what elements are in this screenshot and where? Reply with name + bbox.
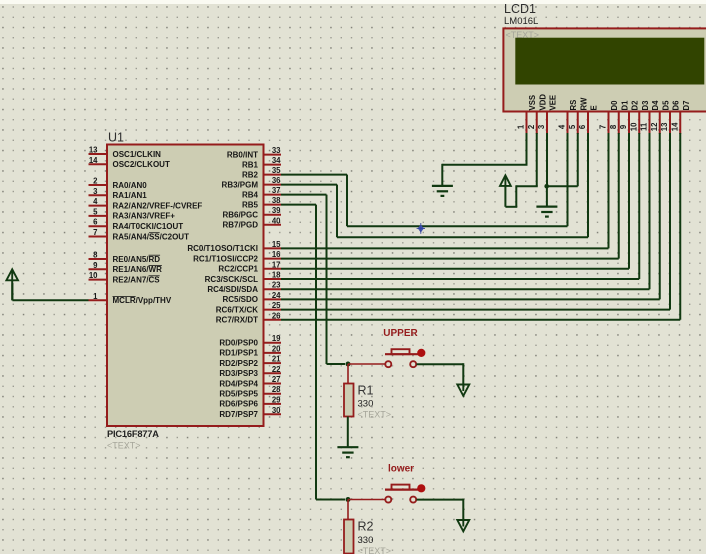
wire junction to button left — [348, 363, 385, 365]
svg-text:D1: D1 — [620, 100, 629, 111]
svg-text:RD7/PSP7: RD7/PSP7 — [219, 410, 258, 419]
svg-text:RD1/PSP1: RD1/PSP1 — [219, 349, 258, 358]
U1 pin 18 RC3/SCK/SCL — [205, 271, 281, 284]
svg-text:6: 6 — [578, 124, 587, 129]
svg-text:RA0/AN0: RA0/AN0 — [113, 181, 148, 190]
svg-text:RC3/SCK/SCL: RC3/SCK/SCL — [205, 275, 258, 284]
svg-text:D5: D5 — [661, 100, 670, 111]
svg-text:7: 7 — [599, 125, 608, 129]
svg-text:RW: RW — [579, 97, 588, 110]
svg-text:RC2/CCP1: RC2/CCP1 — [218, 265, 258, 274]
svg-text:RE1/AN6/WR: RE1/AN6/WR — [113, 265, 163, 274]
svg-text:15: 15 — [272, 240, 281, 249]
U1 pin 21 RD2/PSP2 — [219, 355, 281, 368]
svg-text:RB3/PGM: RB3/PGM — [222, 180, 259, 189]
wire RC6 to LCD D6 — [281, 309, 670, 311]
svg-text:16: 16 — [272, 250, 281, 259]
svg-text:MCLR/Vpp/THV: MCLR/Vpp/THV — [113, 296, 172, 305]
svg-text:RB1: RB1 — [242, 160, 259, 169]
svg-text:E: E — [590, 105, 599, 110]
U1 pin 7 RA5/AN4/SS/C2OUT — [89, 228, 190, 241]
wire RC1 to LCD D1 — [281, 258, 619, 260]
wire RC2 to LCD D2 — [281, 268, 629, 270]
wire LCD VSS to ground — [526, 133, 528, 165]
LCD1 pin 7 D0 — [599, 100, 619, 134]
wire junction to ground — [546, 186, 548, 206]
LCD1 pin 10 D3 — [629, 100, 649, 134]
wire RB4 to UPPER button — [281, 194, 327, 196]
svg-text:4: 4 — [93, 197, 98, 206]
svg-text:2: 2 — [93, 177, 98, 186]
svg-text:D2: D2 — [631, 100, 640, 111]
wire RC5 to LCD D5 — [281, 298, 660, 300]
svg-text:RC0/T1OSO/T1CKI: RC0/T1OSO/T1CKI — [187, 244, 258, 253]
svg-text:8: 8 — [609, 124, 618, 129]
svg-text:330: 330 — [358, 535, 374, 546]
U1 pin 17 RC2/CCP1 — [218, 260, 281, 273]
svg-text:RC5/SDO: RC5/SDO — [222, 295, 258, 304]
power arrow VDD — [500, 175, 511, 186]
U1 pin 28 RD5/PSP5 — [219, 385, 281, 398]
LCD screen — [515, 38, 704, 85]
U1 pin 37 RB4 — [242, 186, 281, 199]
svg-text:12: 12 — [650, 122, 659, 131]
U1 pin 19 RD0/PSP0 — [219, 334, 281, 347]
U1 pin 2 RA0/AN0 — [89, 177, 148, 190]
LCD1 pin 6 E — [578, 105, 598, 134]
wire RC3 to LCD D3 — [281, 278, 639, 280]
U1 pin 26 RC7/RX/DT — [216, 311, 281, 324]
svg-text:8: 8 — [93, 251, 98, 260]
svg-text:11: 11 — [640, 122, 649, 131]
svg-text:D4: D4 — [651, 100, 660, 111]
svg-text:14: 14 — [89, 156, 98, 165]
svg-text:U1: U1 — [108, 131, 124, 145]
svg-text:RB2: RB2 — [242, 170, 259, 179]
resistor R2 — [344, 520, 354, 554]
svg-text:RD0/PSP0: RD0/PSP0 — [219, 339, 258, 348]
svg-text:RC1/T1OSI/CCP2: RC1/T1OSI/CCP2 — [193, 254, 258, 263]
wire RB3 to LCD E — [281, 184, 337, 186]
U1 pin 30 RD7/PSP7 — [219, 406, 281, 419]
svg-text:RD2/PSP2: RD2/PSP2 — [219, 359, 258, 368]
U1 pin 24 RC5/SDO — [222, 291, 281, 304]
LCD LCD1 body — [503, 28, 706, 111]
LCD1 pin 2 VDD — [527, 94, 547, 134]
wire junction to R1 — [347, 364, 349, 384]
svg-text:10: 10 — [89, 271, 98, 280]
U1 pin 25 RC6/TX/CK — [216, 301, 281, 314]
svg-text:13: 13 — [89, 146, 98, 155]
svg-text:1: 1 — [93, 292, 98, 301]
LCD1 pin 3 VEE — [537, 95, 557, 134]
wire R1 to ground — [347, 417, 349, 448]
down arrow lower — [457, 520, 469, 531]
svg-text:13: 13 — [660, 122, 669, 131]
down arrow UPPER — [457, 385, 469, 396]
svg-text:RC6/TX/CK: RC6/TX/CK — [216, 305, 258, 314]
svg-text:RA3/AN3/VREF+: RA3/AN3/VREF+ — [113, 212, 176, 221]
svg-text:D7: D7 — [682, 101, 691, 111]
svg-text:RB4: RB4 — [242, 190, 259, 199]
ground for VSS — [432, 185, 453, 187]
svg-text:33: 33 — [272, 146, 281, 155]
svg-text:VSS: VSS — [528, 95, 537, 111]
svg-text:19: 19 — [272, 334, 281, 343]
svg-text:OSC2/CLKOUT: OSC2/CLKOUT — [113, 160, 170, 169]
svg-text:RA4/T0CKI/C1OUT: RA4/T0CKI/C1OUT — [113, 222, 184, 231]
svg-text:40: 40 — [272, 216, 281, 225]
wire LCD RW down — [577, 133, 579, 186]
svg-text:9: 9 — [93, 261, 98, 270]
svg-text:RD5/PSP5: RD5/PSP5 — [219, 390, 258, 399]
wire MCLR to power — [12, 299, 88, 301]
svg-text:RB7/PGD: RB7/PGD — [222, 221, 258, 230]
wire RC4 to LCD D4 — [281, 288, 650, 290]
svg-text:3: 3 — [93, 187, 98, 196]
svg-text:<TEXT>: <TEXT> — [107, 441, 141, 451]
svg-text:lower: lower — [388, 464, 414, 475]
LCD1 pin 11 D4 — [640, 100, 660, 134]
U1 pin 39 RB6/PGC — [222, 206, 281, 219]
svg-text:RB0/INT: RB0/INT — [227, 150, 258, 159]
svg-text:5: 5 — [93, 207, 98, 216]
svg-text:1: 1 — [517, 124, 526, 129]
svg-text:4: 4 — [558, 124, 567, 129]
push button UPPER — [385, 349, 425, 367]
svg-text:PIC16F877A: PIC16F877A — [107, 429, 159, 439]
LCD1 pin 13 D6 — [660, 100, 680, 134]
U1 pin 5 RA3/AN3/VREF+ — [89, 207, 176, 220]
svg-text:36: 36 — [272, 176, 281, 185]
U1 pin 13 OSC1/CLKIN — [89, 146, 162, 159]
U1 pin 34 RB1 — [242, 156, 281, 169]
wire LCD VEE down — [546, 133, 548, 186]
svg-text:37: 37 — [272, 186, 281, 195]
node marker on RS wire — [417, 223, 425, 234]
svg-text:D3: D3 — [641, 100, 650, 111]
wire junction to R2 — [347, 500, 349, 520]
U1 pin 4 RA2/AN2/VREF-/CVREF — [89, 197, 203, 210]
U1 pin 3 RA1/AN1 — [89, 187, 148, 200]
svg-text:28: 28 — [272, 385, 281, 394]
wire LCD VDD to power — [536, 133, 538, 186]
svg-text:34: 34 — [272, 156, 281, 165]
wire RB2 to LCD RS — [281, 174, 347, 176]
power arrow MCLR — [6, 269, 18, 280]
svg-text:RE2/AN7/CS: RE2/AN7/CS — [113, 275, 161, 284]
svg-text:14: 14 — [670, 122, 679, 131]
microcontroller U1 body — [107, 145, 264, 427]
U1 pin 40 RB7/PGD — [222, 216, 281, 229]
resistor R1 — [344, 384, 354, 417]
U1 pin 38 RB5 — [242, 196, 281, 209]
wire RB5 to lower button — [281, 204, 316, 206]
svg-text:27: 27 — [272, 375, 281, 384]
svg-text:35: 35 — [272, 166, 281, 175]
U1 pin 15 RC0/T1OSO/T1CKI — [187, 240, 281, 253]
svg-text:LCD1: LCD1 — [504, 2, 536, 16]
U1 pin 22 RD3/PSP3 — [219, 365, 281, 378]
svg-text:LM016L: LM016L — [504, 16, 538, 27]
svg-text:RC4/SDI/SDA: RC4/SDI/SDA — [207, 285, 258, 294]
svg-text:RB6/PGC: RB6/PGC — [222, 211, 258, 220]
svg-text:21: 21 — [272, 355, 281, 364]
push button lower — [385, 484, 425, 502]
svg-text:<TEXT>: <TEXT> — [358, 546, 392, 554]
svg-text:2: 2 — [527, 124, 536, 129]
svg-text:RE0/AN5/RD: RE0/AN5/RD — [113, 255, 161, 264]
svg-text:D0: D0 — [610, 100, 619, 111]
svg-text:RA5/AN4/SS/C2OUT: RA5/AN4/SS/C2OUT — [113, 232, 190, 241]
LCD1 pin 5 RW — [568, 97, 588, 134]
svg-text:RD3/PSP3: RD3/PSP3 — [219, 369, 258, 378]
svg-text:38: 38 — [272, 196, 281, 205]
svg-text:RA1/AN1: RA1/AN1 — [113, 191, 148, 200]
svg-text:23: 23 — [272, 281, 281, 290]
svg-text:26: 26 — [272, 311, 281, 320]
U1 pin 8 RE0/AN5/RD — [89, 251, 161, 264]
svg-text:39: 39 — [272, 206, 281, 215]
svg-text:RA2/AN2/VREF-/CVREF: RA2/AN2/VREF-/CVREF — [113, 201, 203, 210]
svg-text:5: 5 — [568, 124, 577, 129]
U1 pin 27 RD4/PSP4 — [219, 375, 281, 388]
svg-text:VEE: VEE — [549, 95, 558, 111]
svg-text:OSC1/CLKIN: OSC1/CLKIN — [113, 150, 162, 159]
U1 pin 20 RD1/PSP1 — [219, 344, 281, 357]
svg-text:RD4/PSP4: RD4/PSP4 — [219, 379, 258, 388]
U1 pin 35 RB2 — [242, 166, 281, 179]
LCD1 pin 12 D5 — [650, 100, 670, 134]
svg-text:RS: RS — [569, 100, 578, 111]
svg-text:22: 22 — [272, 365, 281, 374]
LCD1 pin 14 D7 — [670, 101, 690, 134]
svg-text:30: 30 — [272, 406, 281, 415]
wire RC0 to LCD D0 — [281, 247, 609, 249]
LCD1 pin 4 RS — [558, 100, 578, 134]
ground for VEE RW — [536, 206, 557, 208]
svg-text:R2: R2 — [358, 520, 374, 534]
wire junction to lower button left — [348, 499, 385, 501]
junction RB4 R1 button — [346, 362, 351, 367]
svg-text:17: 17 — [272, 260, 281, 269]
wire UPPER button to arrow — [417, 363, 464, 365]
U1 pin 16 RC1/T1OSI/CCP2 — [193, 250, 281, 263]
wire lower button to arrow — [417, 499, 464, 501]
U1 pin 36 RB3/PGM — [222, 176, 282, 189]
junction VEE RW — [544, 184, 549, 189]
U1 pin 1 MCLR/Vpp/THV — [89, 292, 172, 305]
U1 pin 10 RE2/AN7/CS — [89, 271, 161, 284]
svg-text:UPPER: UPPER — [383, 328, 418, 339]
wire RC7 to LCD D7 — [281, 319, 680, 321]
svg-text:VDD: VDD — [538, 94, 547, 111]
svg-text:29: 29 — [272, 395, 281, 404]
svg-text:330: 330 — [358, 399, 374, 410]
U1 pin 6 RA4/T0CKI/C1OUT — [89, 218, 184, 231]
U1 pin 14 OSC2/CLKOUT — [89, 156, 170, 169]
svg-text:24: 24 — [272, 291, 281, 300]
svg-text:7: 7 — [93, 228, 97, 237]
svg-text:20: 20 — [272, 344, 281, 353]
svg-text:18: 18 — [272, 271, 281, 280]
svg-text:3: 3 — [537, 124, 546, 129]
LCD1 pin 9 D2 — [619, 100, 639, 134]
svg-text:9: 9 — [619, 124, 628, 129]
svg-text:RC7/RX/DT: RC7/RX/DT — [216, 316, 258, 325]
U1 pin 9 RE1/AN6/WR — [89, 261, 163, 274]
U1 pin 29 RD6/PSP6 — [219, 395, 281, 408]
svg-text:R1: R1 — [358, 384, 374, 398]
svg-text:10: 10 — [629, 122, 638, 131]
svg-text:<TEXT>: <TEXT> — [358, 410, 392, 420]
svg-text:6: 6 — [93, 218, 98, 227]
junction RB5 R2 button — [346, 497, 351, 502]
ground below R1 — [337, 446, 358, 448]
svg-text:RB5: RB5 — [242, 200, 259, 209]
LCD1 pin 8 D1 — [609, 100, 629, 134]
U1 pin 23 RC4/SDI/SDA — [207, 281, 281, 294]
svg-text:25: 25 — [272, 301, 281, 310]
svg-text:RD6/PSP6: RD6/PSP6 — [219, 400, 258, 409]
LCD1 pin 1 VSS — [517, 95, 537, 134]
svg-text:D6: D6 — [672, 100, 681, 111]
U1 pin 33 RB0/INT — [227, 146, 281, 159]
